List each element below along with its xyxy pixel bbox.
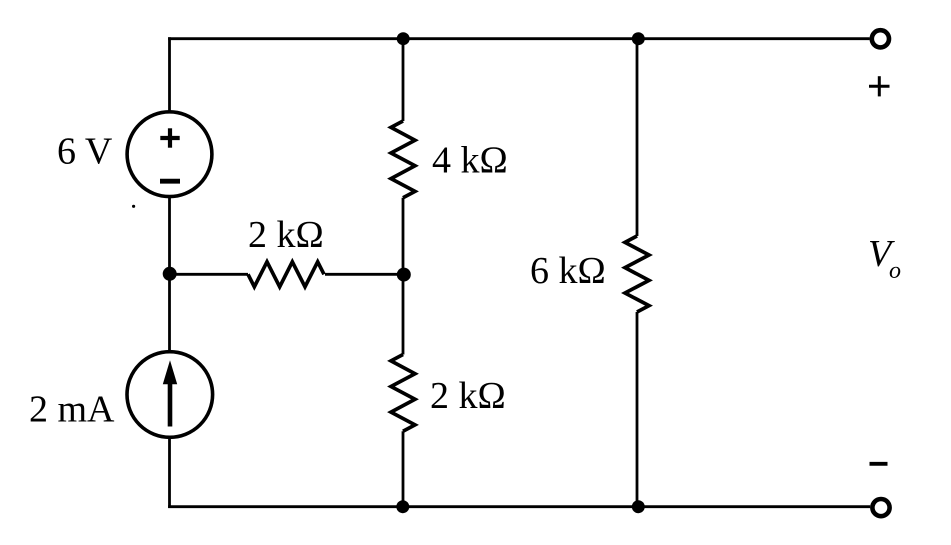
node junction bottom middle	[396, 500, 409, 513]
label minus output	[870, 462, 888, 466]
wire bottom rail	[168, 505, 870, 508]
node junction top middle	[397, 32, 410, 45]
terminal bottom output	[872, 499, 889, 516]
svg-text:4 kΩ: 4 kΩ	[432, 140, 508, 182]
node junction top right	[632, 32, 645, 45]
wire middle branch bottom vertical	[402, 431, 405, 506]
wire horizontal branch right segment	[325, 273, 403, 276]
svg-text:2 kΩ: 2 kΩ	[248, 214, 324, 256]
wire top rail	[168, 37, 870, 40]
voltage source plus mark	[160, 128, 179, 147]
wire middle branch middle vertical	[402, 198, 405, 355]
resistor 2 kOhm vertical zigzag	[391, 355, 415, 432]
current source arrow head	[163, 360, 177, 384]
resistor 6 kOhm zigzag	[625, 236, 649, 312]
voltage source minus mark	[160, 179, 180, 184]
svg-text:6 V: 6 V	[57, 131, 113, 173]
voltage source V1 circle	[127, 112, 212, 197]
resistor 4 kOhm zigzag	[391, 121, 415, 198]
current source I1 circle	[127, 352, 213, 438]
wire left branch upper vertical	[168, 37, 171, 112]
terminal top output	[872, 30, 889, 47]
node junction bottom right	[632, 500, 645, 513]
node junction left middle	[163, 267, 177, 281]
speck artifact	[132, 205, 135, 208]
wire left branch lower vertical	[168, 437, 171, 508]
wire right branch top vertical	[636, 39, 639, 236]
node junction middle	[397, 268, 411, 282]
wire right branch bottom vertical	[636, 312, 639, 507]
resistor 2 kOhm horizontal zigzag	[248, 262, 324, 287]
svg-text:2 kΩ: 2 kΩ	[430, 375, 506, 417]
label plus output	[869, 76, 890, 96]
wire horizontal branch left segment	[170, 273, 249, 276]
wire middle branch top vertical	[402, 39, 405, 121]
svg-text:2 mA: 2 mA	[29, 389, 115, 431]
svg-text:o: o	[889, 258, 901, 284]
wire left branch middle vertical	[168, 196, 171, 352]
current source arrow shaft	[168, 379, 173, 427]
svg-text:6 kΩ: 6 kΩ	[530, 250, 606, 292]
